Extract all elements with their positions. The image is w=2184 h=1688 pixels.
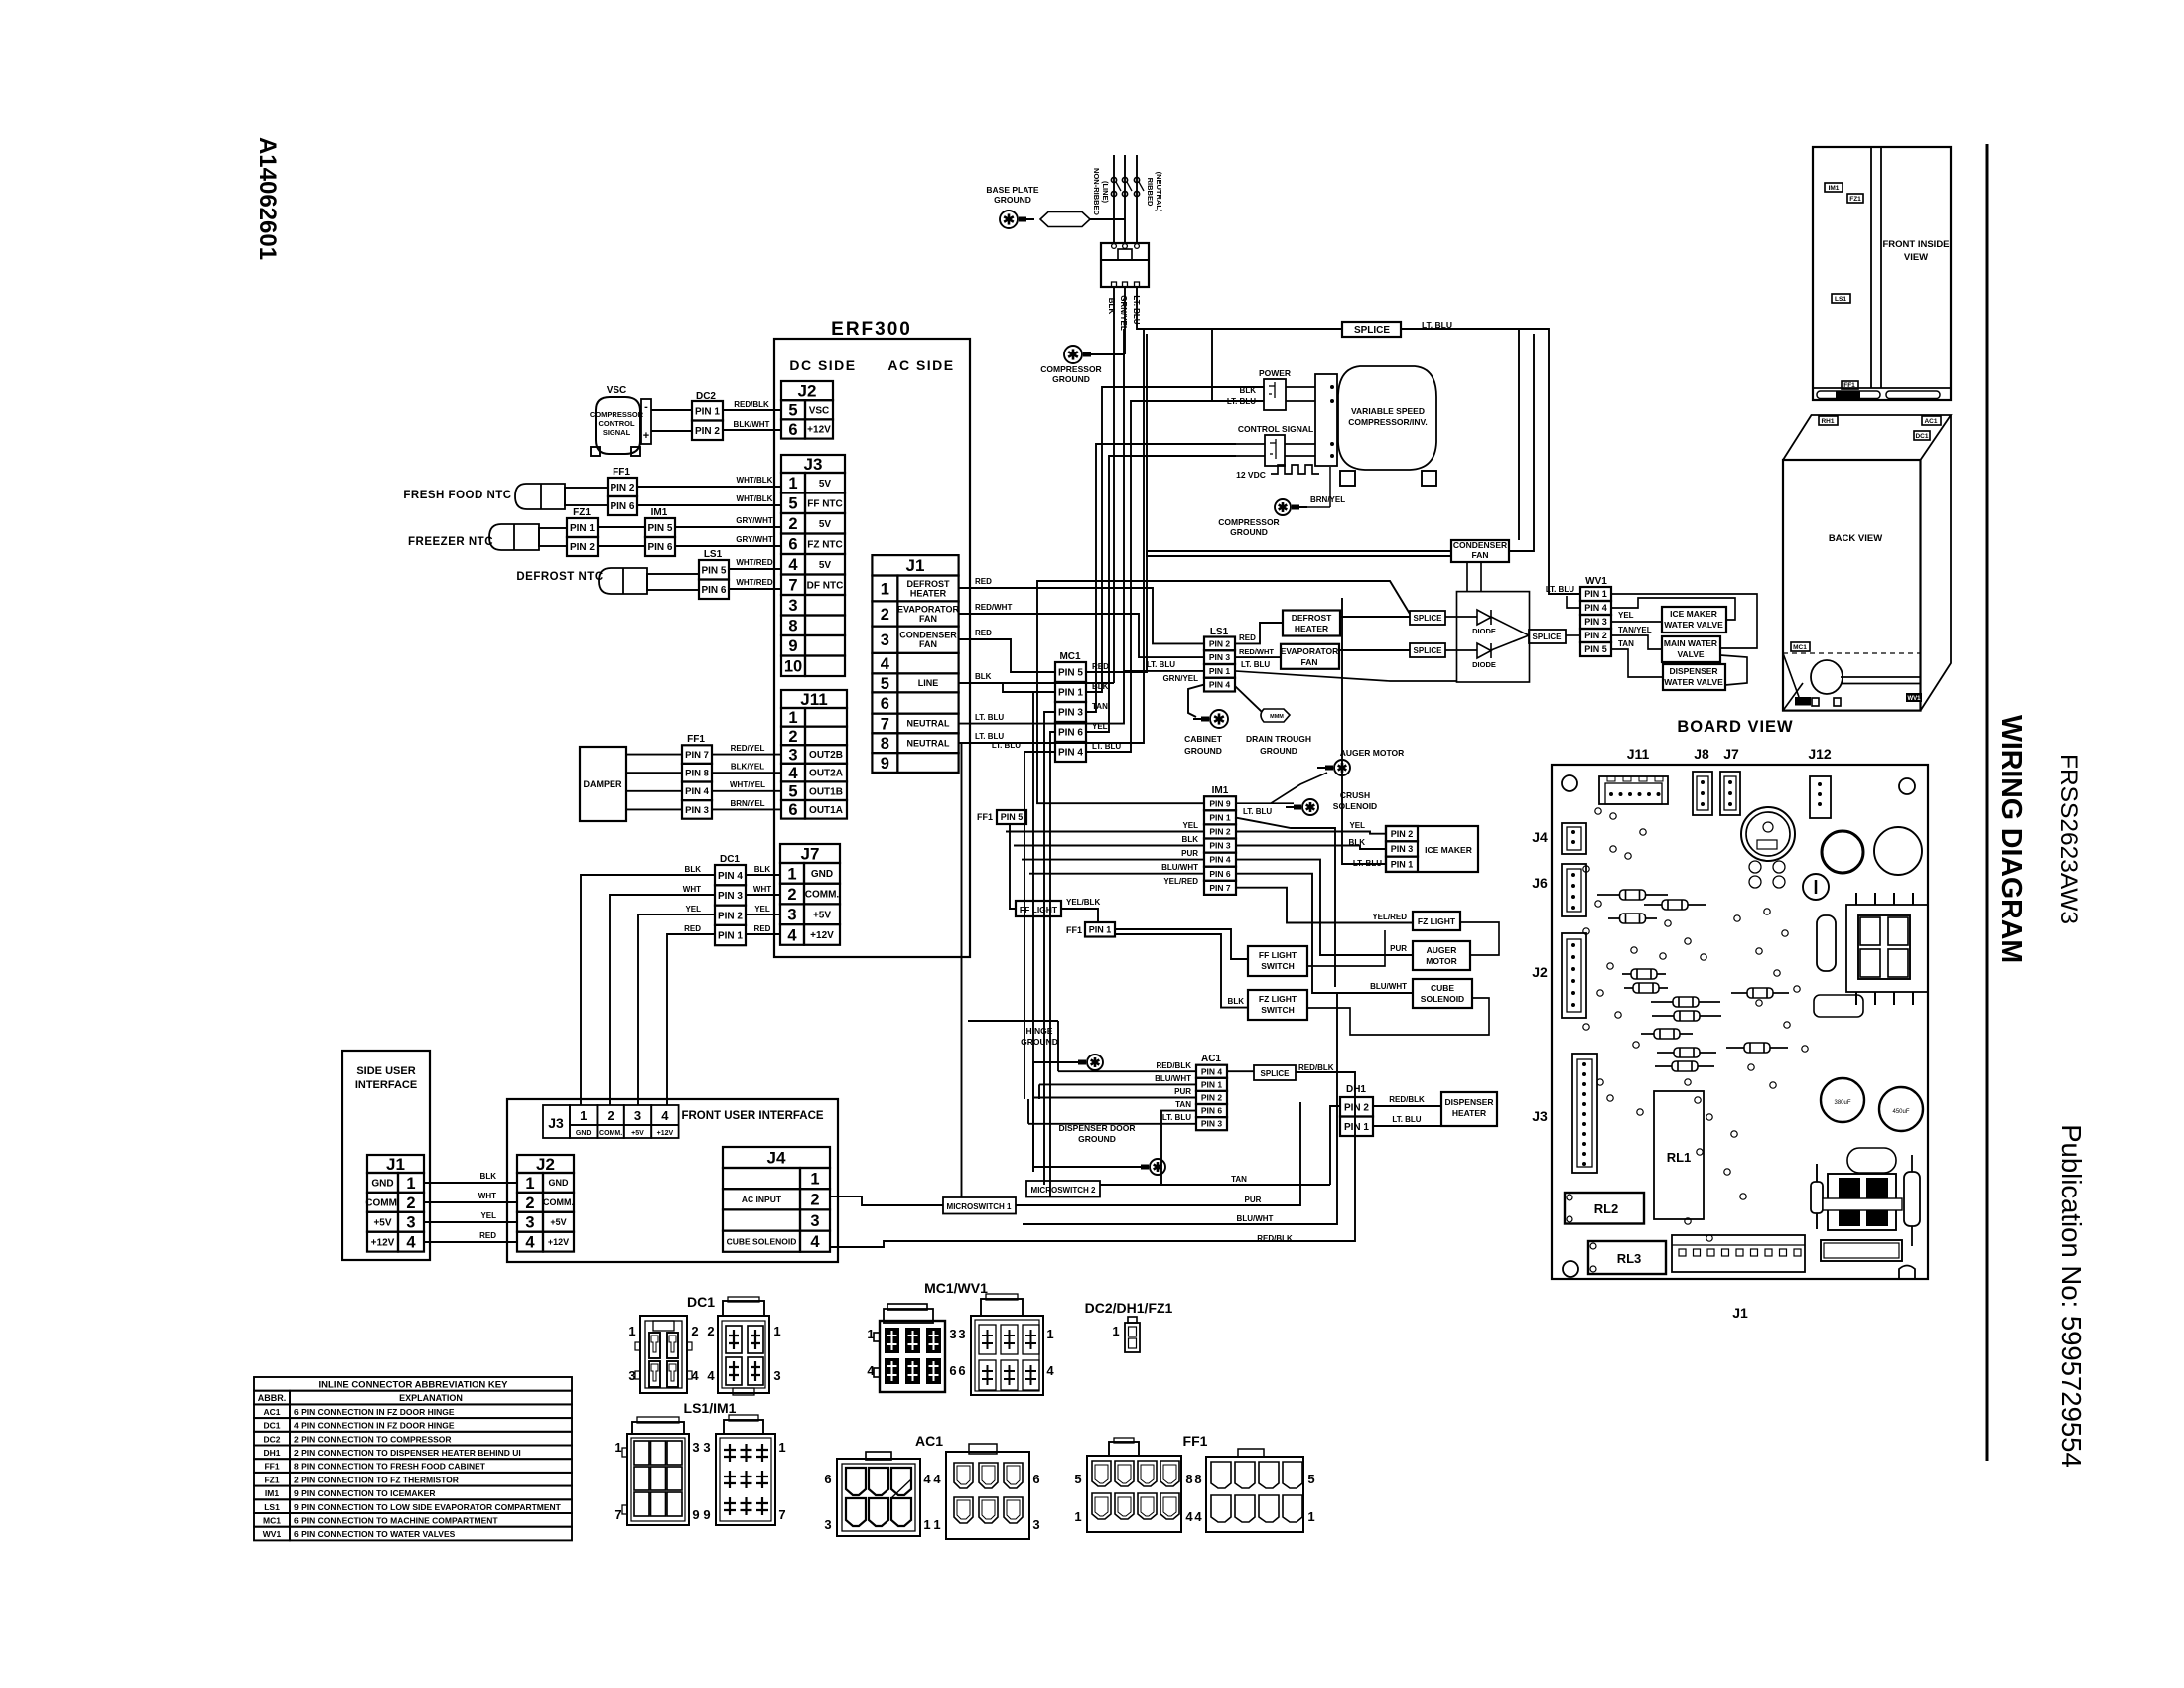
svg-text:DC2: DC2 bbox=[263, 1434, 280, 1444]
svg-text:TAN: TAN bbox=[1175, 1100, 1191, 1109]
svg-text:LT. BLU: LT. BLU bbox=[1546, 585, 1574, 594]
wire LS1 to J3 WHT/RED bbox=[729, 568, 781, 570]
svg-text:3: 3 bbox=[1032, 1517, 1039, 1532]
wire WV1 PIN4 loop bbox=[1567, 596, 1580, 608]
svg-text:RED/WHT: RED/WHT bbox=[975, 603, 1012, 612]
wire DH1 left bbox=[1330, 1106, 1340, 1185]
svg-text:PIN 2: PIN 2 bbox=[1391, 829, 1414, 839]
inductor dark component bbox=[1828, 1174, 1896, 1230]
svg-text:NON-RIBBED: NON-RIBBED bbox=[1092, 168, 1101, 215]
svg-text:J2: J2 bbox=[798, 382, 817, 401]
back view refrigerator bbox=[1783, 460, 1921, 711]
bundle verticals bbox=[1027, 1099, 1029, 1124]
svg-text:7: 7 bbox=[778, 1507, 785, 1522]
label LS1 on front view bbox=[1832, 294, 1850, 303]
svg-text:DISPENSER DOOR: DISPENSER DOOR bbox=[1059, 1123, 1136, 1133]
svg-text:INTERFACE: INTERFACE bbox=[355, 1079, 417, 1091]
svg-text:+5V: +5V bbox=[373, 1217, 391, 1228]
svg-text:CONDENSER: CONDENSER bbox=[899, 631, 957, 640]
svg-text:2: 2 bbox=[881, 606, 889, 624]
wire hinge ground to dispenser door ground bbox=[1033, 1062, 1145, 1167]
svg-text:(LINE): (LINE) bbox=[1101, 181, 1110, 204]
svg-text:PUR: PUR bbox=[1174, 1087, 1191, 1096]
svg-text:BOARD VIEW: BOARD VIEW bbox=[1677, 718, 1793, 736]
capacitor CX2 bbox=[1879, 1087, 1923, 1131]
splice AC1 bbox=[1254, 1065, 1296, 1080]
wire AC1 PIN2 PUR bbox=[1033, 1097, 1196, 1099]
svg-text:8: 8 bbox=[788, 618, 797, 635]
svg-text:1: 1 bbox=[923, 1517, 930, 1532]
wire MC1 PIN3 left bundle bbox=[1044, 712, 1055, 1185]
svg-text:PIN 6: PIN 6 bbox=[701, 585, 726, 596]
svg-text:PIN 4: PIN 4 bbox=[1209, 855, 1231, 865]
svg-text:J8: J8 bbox=[1694, 746, 1709, 762]
svg-text:GRY/WHT: GRY/WHT bbox=[736, 535, 773, 544]
svg-text:4 PIN CONNECTION IN FZ DOOR HI: 4 PIN CONNECTION IN FZ DOOR HINGE bbox=[294, 1421, 455, 1431]
svg-text:5V: 5V bbox=[819, 519, 832, 530]
svg-text:WATER VALVE: WATER VALVE bbox=[1664, 677, 1723, 687]
svg-text:SIGNAL: SIGNAL bbox=[603, 428, 631, 437]
svg-text:GND: GND bbox=[576, 1130, 592, 1137]
auger motor box bbox=[1413, 941, 1470, 970]
svg-text:WV1: WV1 bbox=[1585, 576, 1607, 587]
relay RL1 bbox=[1654, 1091, 1704, 1219]
svg-text:4: 4 bbox=[661, 1108, 669, 1123]
wire WV1 PIN3 YEL to ice maker water valve bbox=[1611, 621, 1662, 623]
svg-text:COMPRESSOR: COMPRESSOR bbox=[1040, 364, 1101, 374]
svg-text:AC1: AC1 bbox=[915, 1433, 943, 1449]
svg-text:BLK: BLK bbox=[480, 1172, 497, 1181]
svg-text:AC1: AC1 bbox=[1924, 418, 1937, 425]
splice 3 bbox=[1529, 630, 1566, 643]
wire IM1 PIN6 BLU/WHT to cube solenoid bbox=[1235, 874, 1413, 993]
wire microswitch 1 run PUR bbox=[1016, 1102, 1300, 1205]
compressor ground 2 bbox=[1275, 499, 1291, 515]
svg-text:COMM.: COMM. bbox=[805, 890, 840, 901]
svg-text:4: 4 bbox=[525, 1234, 535, 1252]
svg-text:FZ1: FZ1 bbox=[264, 1475, 279, 1484]
label IM1 on front view bbox=[1825, 183, 1843, 192]
svg-text:J3: J3 bbox=[804, 455, 823, 474]
svg-text:EVAPORATOR: EVAPORATOR bbox=[897, 604, 960, 614]
wire J1-5 LINE BLK bbox=[959, 683, 1055, 692]
dispenser water valve bbox=[1663, 664, 1725, 690]
svg-text:YEL: YEL bbox=[685, 905, 701, 914]
svg-text:FRSS2623AW3: FRSS2623AW3 bbox=[2055, 754, 2082, 924]
connector drawing MC1/WV1 plug bbox=[971, 1316, 1043, 1395]
svg-text:COMPRESSOR: COMPRESSOR bbox=[1218, 517, 1279, 527]
svg-text:5: 5 bbox=[881, 675, 889, 693]
svg-text:5: 5 bbox=[788, 495, 797, 513]
svg-text:LT. BLU: LT. BLU bbox=[1243, 807, 1272, 816]
splice 2 bbox=[1410, 643, 1445, 657]
svg-text:ICE MAKER: ICE MAKER bbox=[1425, 845, 1472, 855]
svg-text:6 PIN CONNECTION IN FZ DOOR HI: 6 PIN CONNECTION IN FZ DOOR HINGE bbox=[294, 1407, 455, 1417]
svg-text:PUR: PUR bbox=[1181, 849, 1198, 858]
rect component bottom right bbox=[1821, 1240, 1902, 1261]
svg-text:PIN 3: PIN 3 bbox=[1209, 652, 1231, 662]
svg-text:OUT2A: OUT2A bbox=[809, 769, 843, 779]
svg-text:2: 2 bbox=[788, 728, 797, 746]
svg-text:1: 1 bbox=[778, 1440, 785, 1455]
svg-text:POWER: POWER bbox=[1259, 368, 1291, 378]
svg-text:GROUND: GROUND bbox=[1260, 746, 1297, 756]
svg-text:PIN 3: PIN 3 bbox=[1391, 844, 1414, 854]
svg-text:GND: GND bbox=[549, 1178, 570, 1188]
front inside view refrigerator bbox=[1813, 147, 1951, 400]
svg-text:8 PIN CONNECTION TO FRESH FOOD: 8 PIN CONNECTION TO FRESH FOOD CABINET bbox=[294, 1462, 486, 1472]
svg-text:COMM.: COMM. bbox=[543, 1197, 574, 1207]
svg-text:PIN 2: PIN 2 bbox=[1201, 1093, 1223, 1103]
svg-text:450uF: 450uF bbox=[1892, 1109, 1909, 1115]
svg-text:DC1: DC1 bbox=[687, 1294, 715, 1310]
inverter interface bbox=[1315, 374, 1337, 466]
svg-text:CONTROL: CONTROL bbox=[598, 419, 634, 428]
svg-text:LT. BLU: LT. BLU bbox=[1392, 1115, 1421, 1124]
svg-text:1: 1 bbox=[614, 1440, 621, 1455]
svg-text:IM1: IM1 bbox=[265, 1488, 279, 1498]
svg-text:PIN 3: PIN 3 bbox=[1201, 1119, 1223, 1129]
svg-text:YEL: YEL bbox=[480, 1211, 496, 1220]
svg-text:4: 4 bbox=[406, 1234, 416, 1252]
svg-text:AC1: AC1 bbox=[263, 1407, 280, 1417]
svg-text:PIN 9: PIN 9 bbox=[1209, 798, 1231, 808]
svg-text:LT. BLU: LT. BLU bbox=[1132, 295, 1141, 324]
svg-text:GND: GND bbox=[371, 1179, 393, 1190]
svg-text:BLU/WHT: BLU/WHT bbox=[1370, 982, 1407, 991]
svg-text:YEL: YEL bbox=[1618, 611, 1634, 620]
svg-text:HINGE: HINGE bbox=[1026, 1026, 1053, 1036]
svg-text:RED/BLK: RED/BLK bbox=[1298, 1063, 1334, 1072]
svg-text:7: 7 bbox=[788, 577, 797, 595]
svg-text:MOTOR: MOTOR bbox=[1426, 956, 1456, 966]
svg-text:FAN: FAN bbox=[1472, 550, 1489, 560]
svg-text:YEL: YEL bbox=[1349, 821, 1365, 830]
svg-text:J1: J1 bbox=[386, 1155, 405, 1174]
wire DC1 to J7 WHT bbox=[746, 894, 780, 896]
svg-text:SOLENOID: SOLENOID bbox=[1421, 994, 1464, 1004]
svg-text:MICROSWITCH 1: MICROSWITCH 1 bbox=[947, 1202, 1012, 1211]
svg-text:4: 4 bbox=[788, 556, 798, 574]
svg-text:PIN 1: PIN 1 bbox=[1209, 666, 1231, 676]
wire ice maker PIN1 LT. BLU to splice bbox=[1342, 598, 1386, 864]
wire WV1 PIN5 TAN to dispenser water valve bbox=[1611, 649, 1663, 677]
svg-text:4: 4 bbox=[933, 1472, 941, 1486]
svg-text:FF1: FF1 bbox=[1183, 1433, 1208, 1449]
FZ light switch bbox=[1248, 990, 1307, 1020]
svg-text:9 PIN CONNECTION TO LOW SIDE E: 9 PIN CONNECTION TO LOW SIDE EVAPORATOR … bbox=[294, 1502, 562, 1512]
svg-text:OUT2B: OUT2B bbox=[809, 750, 843, 761]
crush solenoid lug bbox=[1302, 799, 1318, 815]
svg-text:6: 6 bbox=[881, 695, 889, 713]
svg-text:TAN/YEL: TAN/YEL bbox=[1618, 626, 1652, 634]
wire IM1 PIN7 YEL/RED to FZ light bbox=[1235, 888, 1413, 923]
svg-text:VARIABLE SPEED: VARIABLE SPEED bbox=[1351, 406, 1425, 416]
wire MC1 PIN3 right to control bbox=[1086, 444, 1236, 712]
wire splice AC1 to bottom loop bbox=[830, 1072, 1355, 1247]
svg-text:WATER VALVE: WATER VALVE bbox=[1664, 620, 1723, 630]
svg-text:GRY/WHT: GRY/WHT bbox=[736, 516, 773, 525]
svg-text:J11: J11 bbox=[800, 690, 827, 709]
wire FZ1 to IM1 bbox=[598, 526, 645, 528]
svg-text:FF NTC: FF NTC bbox=[807, 498, 843, 509]
svg-text:J1: J1 bbox=[906, 556, 925, 575]
svg-text:9 PIN CONNECTION TO ICEMAKER: 9 PIN CONNECTION TO ICEMAKER bbox=[294, 1488, 435, 1498]
svg-text:IM1: IM1 bbox=[1829, 185, 1840, 192]
svg-text:GROUND: GROUND bbox=[1078, 1134, 1116, 1144]
wire main water valve loop bbox=[1720, 655, 1747, 685]
svg-text:RED: RED bbox=[1092, 662, 1109, 671]
wire DH1 PIN1 LT. BLU to dispenser heater bbox=[1373, 1125, 1441, 1127]
svg-text:3: 3 bbox=[525, 1214, 534, 1232]
svg-text:PIN 2: PIN 2 bbox=[610, 483, 634, 493]
svg-text:PIN 2: PIN 2 bbox=[1209, 638, 1231, 648]
wire MC1 PIN1 left bundle bbox=[1033, 692, 1055, 1172]
wire splice to WV1/condenser area bbox=[1401, 329, 1580, 594]
wire MC1 PIN6 right to control bbox=[1086, 456, 1236, 732]
svg-text:LT. BLU: LT. BLU bbox=[1162, 1113, 1191, 1122]
svg-text:BLK: BLK bbox=[754, 865, 771, 874]
svg-text:9: 9 bbox=[703, 1507, 710, 1522]
svg-text:YEL: YEL bbox=[1092, 722, 1108, 731]
svg-text:2: 2 bbox=[691, 1324, 698, 1338]
svg-text:RL3: RL3 bbox=[1617, 1251, 1642, 1266]
svg-text:PIN 5: PIN 5 bbox=[647, 523, 672, 534]
connector J1 on board bbox=[1672, 1235, 1805, 1272]
svg-text:DISPENSER: DISPENSER bbox=[1669, 666, 1717, 676]
wire neutral drop to microswitch 1 bbox=[961, 743, 963, 1197]
svg-text:A14062601: A14062601 bbox=[254, 137, 281, 260]
wire microswitch 2 run TAN bbox=[1100, 1184, 1330, 1186]
wire splice3 to WV1 PIN2 TAN/YEL bbox=[1566, 634, 1580, 636]
svg-text:DC1: DC1 bbox=[720, 854, 740, 865]
wire IM1 to J3 GRY/WHT bbox=[675, 526, 781, 528]
dispenser heater bbox=[1441, 1092, 1497, 1126]
terminal block bbox=[1101, 243, 1149, 287]
svg-text:BRN/YEL: BRN/YEL bbox=[1310, 495, 1345, 504]
wire AC1 PIN3 LT. BLU bbox=[1028, 1123, 1196, 1125]
svg-text:WIRING DIAGRAM: WIRING DIAGRAM bbox=[1995, 715, 2027, 963]
svg-text:HEATER: HEATER bbox=[1295, 624, 1328, 633]
connector J3 strip (front UI) bbox=[543, 1105, 570, 1138]
svg-text:1: 1 bbox=[787, 865, 796, 883]
trimmer bbox=[1803, 874, 1829, 900]
svg-text:SWITCH: SWITCH bbox=[1261, 961, 1295, 971]
svg-text:HEATER: HEATER bbox=[910, 588, 947, 598]
svg-text:DISPENSER: DISPENSER bbox=[1444, 1097, 1493, 1107]
svg-text:DIODE: DIODE bbox=[1472, 660, 1496, 669]
svg-text:PIN 2: PIN 2 bbox=[1209, 827, 1231, 837]
wire LS1 PIN4 GRN/YEL to cabinet ground bbox=[1188, 685, 1204, 717]
label WV1 on back view bbox=[1906, 693, 1922, 702]
svg-text:PIN 1: PIN 1 bbox=[1344, 1122, 1369, 1133]
svg-text:RED: RED bbox=[975, 629, 992, 637]
svg-text:6: 6 bbox=[1032, 1472, 1039, 1486]
wire condenser fan loop bbox=[1509, 334, 1534, 551]
svg-text:BLK: BLK bbox=[1349, 838, 1366, 847]
svg-text:CUBE SOLENOID: CUBE SOLENOID bbox=[727, 1236, 797, 1246]
svg-text:4: 4 bbox=[810, 1233, 820, 1251]
wire DH1 PIN2 RED/BLK to dispenser heater bbox=[1373, 1105, 1441, 1107]
control board ERF300 outline bbox=[774, 339, 970, 957]
svg-text:LT. BLU: LT. BLU bbox=[975, 713, 1004, 722]
svg-text:4: 4 bbox=[1046, 1363, 1054, 1378]
wire J1-8 NEUTRAL LT. BLU bbox=[959, 329, 1144, 743]
svg-text:WHT/RED: WHT/RED bbox=[736, 558, 773, 567]
svg-text:1: 1 bbox=[628, 1324, 635, 1338]
right margin rule bbox=[1986, 144, 1989, 1461]
svg-text:PIN 4: PIN 4 bbox=[685, 786, 709, 797]
svg-text:PIN 5: PIN 5 bbox=[1001, 812, 1024, 822]
svg-text:RED: RED bbox=[754, 924, 771, 933]
capacitor C3 bbox=[1817, 915, 1836, 971]
connector J4 (front UI) bbox=[723, 1147, 830, 1168]
svg-text:6 PIN CONNECTION TO MACHINE CO: 6 PIN CONNECTION TO MACHINE COMPARTMENT bbox=[294, 1516, 498, 1526]
label AC1 on back view bbox=[1922, 416, 1941, 425]
capacitor C2 bbox=[1874, 827, 1922, 875]
svg-text:CABINET: CABINET bbox=[1184, 734, 1223, 744]
splice 1 bbox=[1410, 611, 1445, 625]
connector J11 (ERF300 DC side) bbox=[781, 690, 847, 708]
label FZ1 on front view bbox=[1847, 194, 1863, 203]
pill component bbox=[1847, 1148, 1896, 1173]
svg-text:5: 5 bbox=[788, 783, 797, 801]
svg-text:3: 3 bbox=[788, 746, 797, 764]
svg-text:WHT/RED: WHT/RED bbox=[736, 578, 773, 587]
svg-text:GRN/YEL: GRN/YEL bbox=[1162, 674, 1198, 683]
svg-text:PIN 2: PIN 2 bbox=[1344, 1102, 1369, 1113]
wire AC1 PIN4 RED/BLK bbox=[1058, 1070, 1196, 1072]
relay RL3 bbox=[1588, 1241, 1666, 1274]
svg-text:+12V: +12V bbox=[657, 1130, 674, 1137]
svg-text:1: 1 bbox=[580, 1108, 587, 1123]
svg-text:TAN: TAN bbox=[1231, 1175, 1247, 1184]
capacitor CX1 bbox=[1821, 1078, 1864, 1122]
svg-text:5: 5 bbox=[1307, 1472, 1314, 1486]
svg-text:J4: J4 bbox=[767, 1149, 786, 1168]
wire MC1 PIN6 left bundle bbox=[1050, 732, 1055, 1197]
svg-text:DEFROST NTC: DEFROST NTC bbox=[516, 571, 603, 583]
svg-text:5: 5 bbox=[1074, 1472, 1081, 1486]
svg-text:RED/BLK: RED/BLK bbox=[1156, 1061, 1191, 1070]
wire DC1 to J7 BLK bbox=[746, 874, 780, 876]
wires side UI J1 to J2 bbox=[424, 1182, 517, 1184]
svg-text:WHT/BLK: WHT/BLK bbox=[737, 494, 773, 503]
svg-text:HEATER: HEATER bbox=[1452, 1108, 1486, 1118]
evaporator fan bbox=[1281, 644, 1339, 669]
svg-text:LT. BLU: LT. BLU bbox=[1147, 660, 1175, 669]
svg-text:2: 2 bbox=[788, 515, 797, 533]
svg-text:FF1: FF1 bbox=[687, 734, 705, 745]
svg-text:3: 3 bbox=[810, 1212, 819, 1230]
svg-text:FZ1: FZ1 bbox=[573, 507, 591, 518]
connector drawing DC1 plug bbox=[718, 1316, 769, 1393]
wire LS1 PIN2 to defrost heater RED bbox=[1235, 623, 1283, 643]
svg-text:VSC: VSC bbox=[809, 405, 830, 416]
svg-text:GROUND: GROUND bbox=[1184, 746, 1222, 756]
svg-text:4: 4 bbox=[707, 1368, 715, 1383]
svg-text:IM1: IM1 bbox=[1212, 785, 1229, 796]
svg-text:-: - bbox=[644, 401, 648, 413]
svg-text:PIN 6: PIN 6 bbox=[610, 501, 634, 512]
svg-text:4: 4 bbox=[881, 655, 890, 673]
svg-text:9: 9 bbox=[881, 755, 889, 773]
svg-text:RH1: RH1 bbox=[1821, 418, 1834, 425]
svg-text:RIBBED: RIBBED bbox=[1146, 178, 1155, 207]
svg-text:3: 3 bbox=[406, 1214, 415, 1232]
svg-text:J2: J2 bbox=[1532, 964, 1548, 980]
wire diodes to splice 3 bbox=[1445, 616, 1477, 618]
wire FF1 to J11 BRN/YEL bbox=[712, 808, 781, 810]
svg-text:3: 3 bbox=[958, 1327, 965, 1341]
wire J1-7 NEUTRAL LT. BLU bbox=[959, 329, 1124, 724]
connector drawing FF1 plug bbox=[1206, 1457, 1303, 1532]
svg-text:BLU/WHT: BLU/WHT bbox=[1155, 1074, 1191, 1083]
svg-text:6: 6 bbox=[958, 1363, 965, 1378]
wire WV1 PIN4 to ice maker valve loop bbox=[1611, 598, 1735, 620]
wire power to inverter bbox=[1286, 386, 1315, 388]
label FF1 on front view bbox=[1842, 381, 1858, 389]
compressor enclosure bbox=[1147, 334, 1451, 556]
svg-text:2 PIN CONNECTION TO COMPRESSOR: 2 PIN CONNECTION TO COMPRESSOR bbox=[294, 1434, 452, 1444]
svg-text:BLU/WHT: BLU/WHT bbox=[1161, 863, 1198, 872]
svg-text:PIN 1: PIN 1 bbox=[718, 931, 743, 942]
svg-text:ERF300: ERF300 bbox=[831, 319, 912, 340]
defrost heater bbox=[1283, 611, 1340, 636]
svg-text:4: 4 bbox=[788, 765, 798, 782]
wire IM1 PIN9 to crush solenoid bbox=[1236, 802, 1294, 804]
svg-text:8: 8 bbox=[1194, 1472, 1201, 1486]
svg-text:PIN 1: PIN 1 bbox=[1201, 1079, 1223, 1089]
svg-text:SPLICE: SPLICE bbox=[1533, 633, 1563, 641]
svg-text:DEFROST: DEFROST bbox=[1292, 613, 1332, 623]
svg-text:3: 3 bbox=[824, 1517, 831, 1532]
svg-text:RED/WHT: RED/WHT bbox=[1239, 647, 1274, 656]
ice maker bbox=[1386, 826, 1478, 872]
svg-text:RED/BLK: RED/BLK bbox=[1389, 1095, 1425, 1104]
wire J1-1 RED to LS1 PIN2 bbox=[959, 588, 1204, 643]
svg-text:RED: RED bbox=[1239, 633, 1256, 642]
auger motor lug bbox=[1334, 760, 1350, 775]
svg-text:FZ LIGHT: FZ LIGHT bbox=[1259, 994, 1297, 1004]
svg-text:INLINE CONNECTOR ABBREVIATION: INLINE CONNECTOR ABBREVIATION KEY bbox=[319, 1380, 509, 1391]
svg-text:+12V: +12V bbox=[548, 1237, 569, 1247]
svg-text:DIODE: DIODE bbox=[1472, 627, 1496, 635]
svg-text:PIN 3: PIN 3 bbox=[1058, 708, 1083, 719]
svg-text:FF1: FF1 bbox=[613, 467, 630, 478]
svg-text:2: 2 bbox=[525, 1195, 534, 1212]
connector drawing AC1 receptacle bbox=[837, 1459, 920, 1536]
wire MC1 PIN1 right to power BLK bbox=[1086, 387, 1264, 692]
svg-text:2: 2 bbox=[607, 1108, 614, 1123]
svg-text:LS1: LS1 bbox=[1210, 627, 1229, 637]
svg-text:1: 1 bbox=[810, 1171, 819, 1189]
wire FF switch right loop bbox=[1307, 930, 1385, 966]
svg-text:FRESH FOOD NTC: FRESH FOOD NTC bbox=[403, 490, 511, 501]
mounting holes bbox=[1562, 775, 1577, 791]
connector drawing DC1 receptacle bbox=[640, 1316, 687, 1393]
wire FZ light right loop bbox=[1460, 922, 1499, 955]
FZ light bbox=[1413, 912, 1460, 930]
svg-text:SIDE USER: SIDE USER bbox=[356, 1065, 415, 1077]
drain trough ground bbox=[1235, 686, 1262, 712]
svg-text:PIN 6: PIN 6 bbox=[1058, 728, 1083, 739]
svg-text:PIN 7: PIN 7 bbox=[1209, 883, 1231, 893]
svg-text:4: 4 bbox=[1185, 1509, 1193, 1524]
buzzer bbox=[1741, 807, 1795, 861]
resistors on board bbox=[1597, 894, 1668, 896]
svg-text:BLK: BLK bbox=[1182, 835, 1199, 844]
